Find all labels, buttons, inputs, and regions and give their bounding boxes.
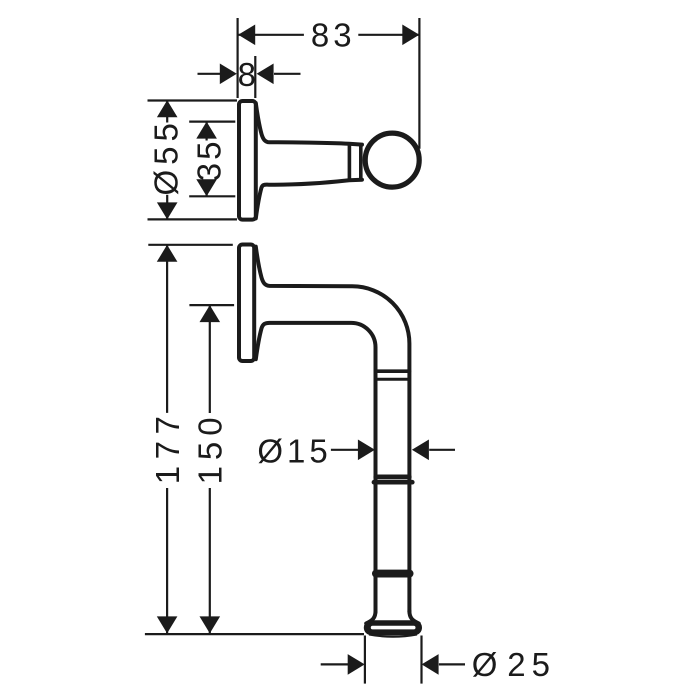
svg-text:35: 35: [191, 139, 228, 182]
svg-text:83: 83: [311, 17, 356, 54]
svg-text:Ø55: Ø55: [148, 118, 185, 195]
svg-text:Ø15: Ø15: [257, 432, 331, 469]
svg-text:Ø: Ø: [472, 646, 502, 683]
svg-text:177: 177: [149, 410, 186, 485]
svg-text:150: 150: [191, 411, 228, 484]
svg-text:25: 25: [507, 646, 556, 683]
svg-text:8: 8: [238, 56, 260, 93]
